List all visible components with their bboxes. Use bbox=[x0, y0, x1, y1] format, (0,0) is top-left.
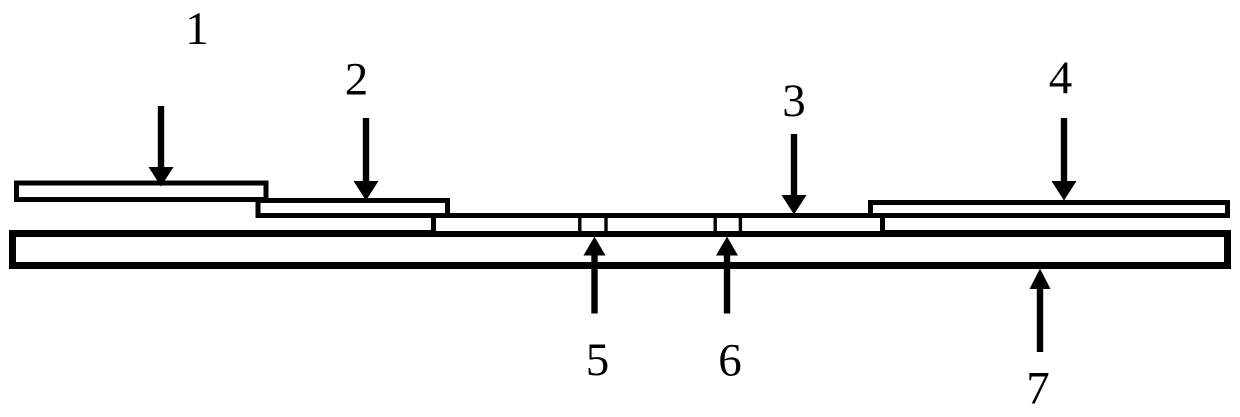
membrane strip 3 bbox=[434, 216, 883, 234]
svg-text:5: 5 bbox=[586, 334, 610, 386]
svg-text:3: 3 bbox=[782, 75, 806, 127]
test line right edge bbox=[604, 214, 607, 235]
arrow 4 bbox=[1052, 118, 1077, 201]
arrow 3 bbox=[782, 134, 807, 215]
svg-text:4: 4 bbox=[1049, 52, 1073, 104]
svg-text:2: 2 bbox=[345, 54, 369, 106]
svg-text:6: 6 bbox=[718, 335, 742, 387]
conjugate pad 2 bbox=[258, 201, 448, 216]
svg-text:7: 7 bbox=[1026, 363, 1050, 413]
test line left edge bbox=[578, 214, 581, 235]
control line left edge bbox=[714, 214, 717, 235]
arrow 5 bbox=[584, 237, 606, 314]
arrow 2 bbox=[354, 118, 379, 201]
control line right edge bbox=[739, 214, 742, 235]
arrow 7 bbox=[1030, 269, 1051, 353]
sample pad 1 bbox=[17, 183, 267, 200]
arrow 1 bbox=[149, 106, 174, 187]
absorbent pad 4 bbox=[871, 203, 1228, 216]
arrow 6 bbox=[716, 237, 738, 314]
backing card 7 bbox=[13, 234, 1228, 266]
svg-text:1: 1 bbox=[185, 3, 209, 55]
